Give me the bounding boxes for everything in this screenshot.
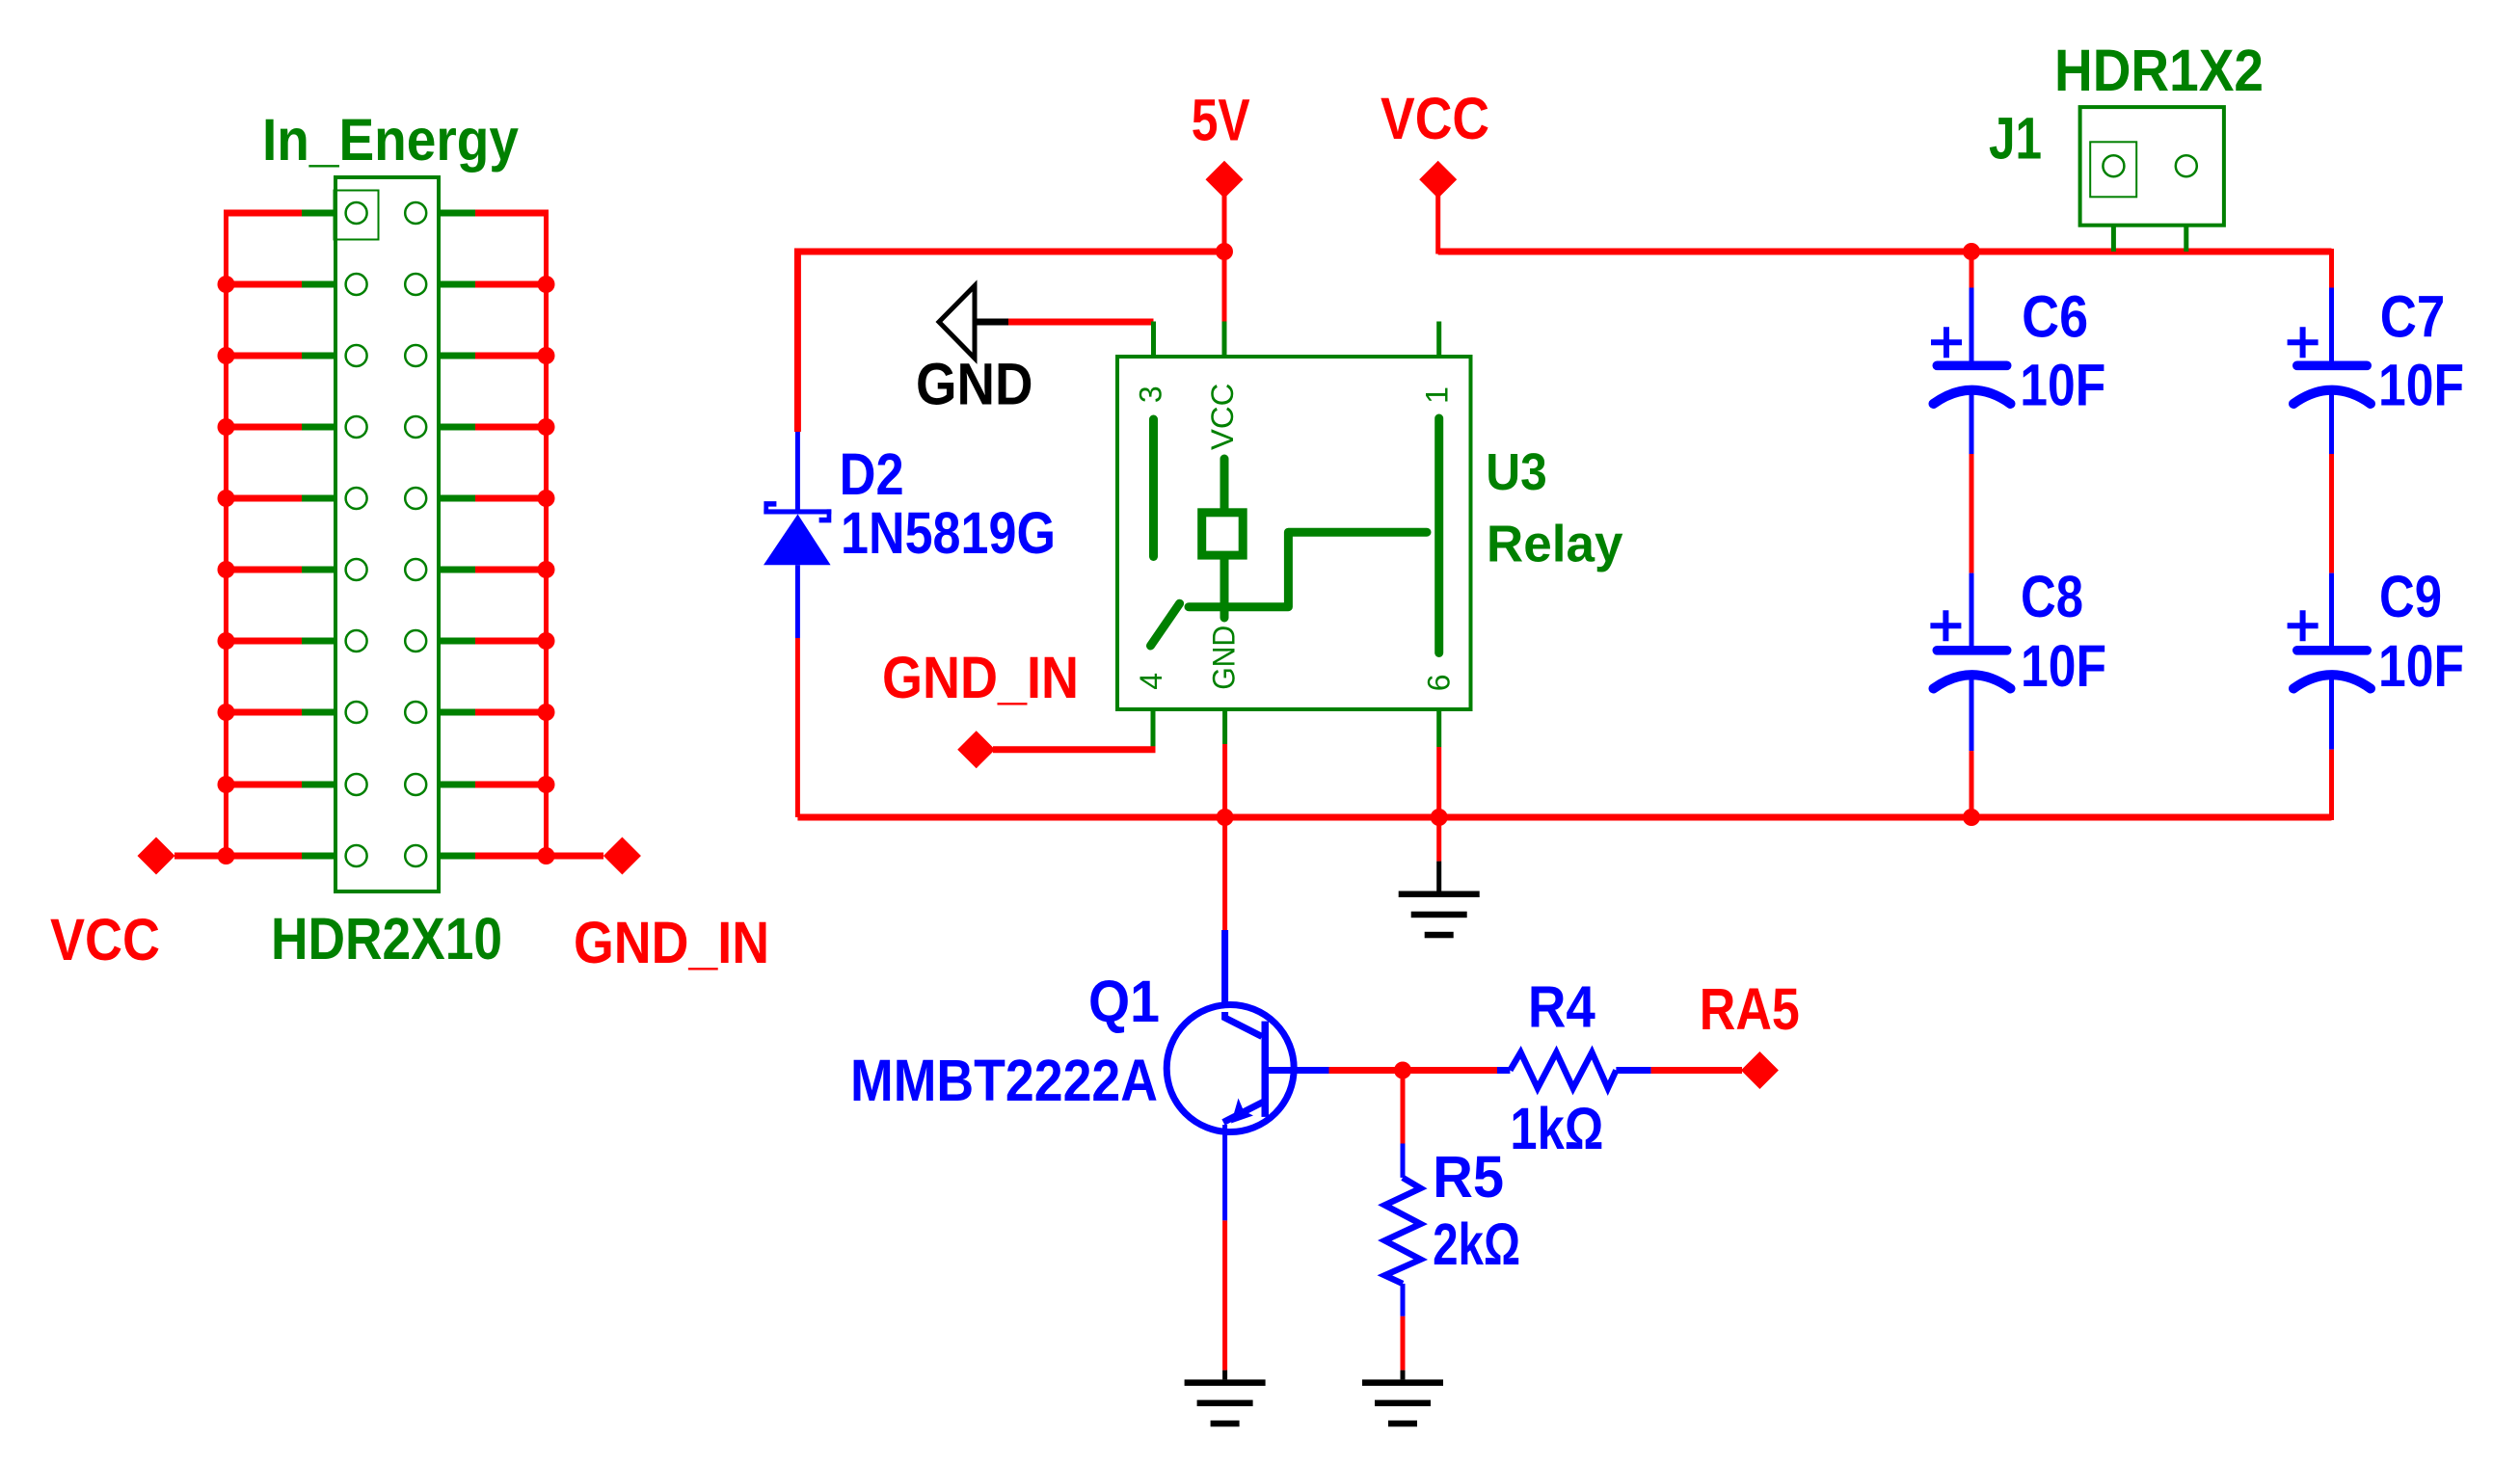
relay U3 coil bottom lead <box>1220 560 1229 618</box>
junction dots left bus <box>218 276 235 864</box>
transistor Q1 emitter slant <box>1223 1103 1263 1123</box>
wire row1 left <box>224 210 302 217</box>
transistor Q1 collector slant inside <box>1225 1012 1262 1037</box>
svg-text:VCC: VCC <box>1381 86 1489 151</box>
wire row8 right <box>475 709 549 716</box>
wire row6 left <box>224 567 302 573</box>
wire 5V stem <box>1222 196 1227 252</box>
connector J In_Energy pin leads left column <box>302 213 346 856</box>
diode D2 schottky cathode bar <box>764 509 831 514</box>
capacitor C8 curved plate <box>1934 675 2011 688</box>
svg-text:10F: 10F <box>2020 353 2105 418</box>
wire relay GND pin to bottom bus <box>1222 744 1227 817</box>
svg-text:R4: R4 <box>1528 973 1595 1039</box>
resistor R5 top lead blue <box>1401 1144 1406 1178</box>
relay U3 body box <box>1117 357 1471 709</box>
wire row2 left <box>224 281 302 288</box>
capacitor C8 plus sign <box>1930 610 1961 641</box>
capacitor C8 top lead blue <box>1970 573 1974 647</box>
capacitor C6 top lead blue <box>1970 288 1974 362</box>
svg-text:10F: 10F <box>2021 633 2106 699</box>
diode D2 schottky right hook <box>819 509 832 522</box>
junction dots right bus <box>538 276 555 864</box>
transistor Q1 collector lead blue <box>1225 930 1262 1037</box>
wire R4 to RA5 <box>1651 1067 1742 1074</box>
wire row10 left to VCC diamond <box>174 853 302 860</box>
node GND_IN diamond mid <box>957 731 995 768</box>
wire diode to bottom bus <box>795 638 800 817</box>
relay U3 pin 6 bottom lead <box>1436 709 1441 747</box>
wire GND arrow to relay pin3 <box>1008 319 1154 326</box>
svg-text:U3: U3 <box>1486 443 1547 501</box>
svg-text:1N5819G: 1N5819G <box>841 500 1056 566</box>
wire C7 to C9 <box>2329 454 2334 573</box>
svg-text:1: 1 <box>1420 386 1455 404</box>
svg-text:Q1: Q1 <box>1088 969 1160 1034</box>
diode D2 triangle <box>764 515 831 566</box>
svg-text:R5: R5 <box>1433 1144 1504 1210</box>
capacitor C9 top lead blue <box>2329 573 2334 647</box>
capacitor C7 curved plate <box>2293 390 2371 404</box>
junction dot C6 at top bus <box>1963 243 1980 260</box>
wire row5 right <box>475 495 549 502</box>
SECTION: right caps <box>1930 38 2464 826</box>
wire GND arrow black segment <box>975 319 1008 326</box>
connector J1 pin leads <box>2111 173 2116 252</box>
capacitor C6 curved plate <box>1934 390 2011 404</box>
wire row9 left <box>224 782 302 788</box>
relay U3 switch common arm slant <box>1151 603 1180 646</box>
svg-text:D2: D2 <box>840 441 904 507</box>
wire Q1 emitter to ground red <box>1222 1220 1227 1370</box>
wire row10 right to GND_IN diamond <box>475 853 603 860</box>
svg-text:10F: 10F <box>2378 633 2464 699</box>
relay U3 pin 3 internal bar <box>1149 419 1158 557</box>
relay U3 VCC pin top lead <box>1222 322 1227 358</box>
wire base to R4 <box>1329 1067 1498 1074</box>
wire row5 left <box>224 495 302 502</box>
relay U3 coil top lead <box>1220 459 1229 508</box>
transistor Q1 base lead blue <box>1269 1067 1329 1074</box>
wire GND_IN right bus vertical <box>544 213 549 856</box>
wire VCC left bus vertical <box>224 213 228 856</box>
ground symbol under pin 6 <box>1399 862 1480 939</box>
connector J1 pin 1 marker square <box>2090 142 2136 197</box>
SECTION: transistor area <box>850 817 1800 1426</box>
svg-text:2kΩ: 2kΩ <box>1433 1211 1520 1277</box>
svg-text:1kΩ: 1kΩ <box>1510 1096 1603 1161</box>
resistor R4 zigzag <box>1510 1052 1616 1088</box>
junction 5V bus dot <box>1216 243 1233 260</box>
resistor R5 bottom lead blue <box>1401 1284 1406 1317</box>
capacitor C7 top lead blue <box>2329 288 2334 362</box>
wire GND_IN to relay pin 4 <box>993 746 1156 753</box>
svg-text:VCC: VCC <box>50 907 160 972</box>
capacitor C7 top plate <box>2292 361 2372 371</box>
SECTION: left connector <box>50 107 769 975</box>
SECTION: middle relay <box>764 86 2332 938</box>
relay U3 pin 1 top lead <box>1436 322 1441 358</box>
node VCC diamond bottom left <box>138 838 175 875</box>
connector J1 pin circles <box>2103 155 2124 176</box>
svg-text:6: 6 <box>1421 675 1456 692</box>
svg-text:4: 4 <box>1134 673 1168 690</box>
node VCC power diamond <box>1419 161 1457 199</box>
relay U3 pin 4 bottom lead <box>1151 709 1156 748</box>
wire row2 right <box>475 281 549 288</box>
connector pin circles right column <box>405 202 426 866</box>
junction dot C8 at bottom bus <box>1963 809 1980 826</box>
resistor R4 left lead blue <box>1497 1067 1510 1074</box>
capacitor C8 top plate <box>1933 646 2012 655</box>
relay U3 switch contact path <box>1189 532 1427 607</box>
wire row7 left <box>224 638 302 645</box>
svg-text:GND_IN: GND_IN <box>574 910 769 975</box>
connector J In_Energy pin leads right column <box>426 213 475 856</box>
wire base node down to R5 <box>1401 1071 1406 1144</box>
node 5V power diamond <box>1206 161 1244 199</box>
wire row8 left <box>224 709 302 716</box>
capacitor C9 curved plate <box>2293 675 2371 688</box>
diode D2 cathode lead blue <box>795 432 800 511</box>
wire row7 right <box>475 638 549 645</box>
relay U3 coil square <box>1202 513 1244 555</box>
svg-text:HDR1X2: HDR1X2 <box>2054 38 2264 103</box>
connector In_Energy body box <box>335 177 439 891</box>
transistor Q1 base bar <box>1262 1022 1270 1117</box>
connector pin 1 marker square <box>335 191 379 240</box>
wire 5V down to relay coil <box>1222 252 1227 322</box>
svg-text:C6: C6 <box>2022 284 2088 350</box>
wire relay pin 6 down to ground <box>1436 747 1441 862</box>
wire bottom bus <box>797 814 2331 821</box>
node RA5 diamond <box>1741 1051 1779 1089</box>
capacitor C9 plus sign <box>2288 610 2319 641</box>
svg-text:10F: 10F <box>2378 353 2464 418</box>
relay U3 pin 3 top lead <box>1151 322 1156 358</box>
capacitor C6 plus sign <box>1931 327 1962 358</box>
junction dot base node <box>1394 1062 1411 1079</box>
connector J1 body box <box>2080 107 2224 226</box>
ground symbol under Q1 <box>1185 1370 1266 1427</box>
resistor R4 right lead blue <box>1616 1067 1650 1074</box>
GND arrow symbol <box>939 286 975 359</box>
wire row4 left <box>224 424 302 431</box>
resistor R5 zigzag <box>1384 1178 1420 1284</box>
svg-text:In_Energy: In_Energy <box>262 107 519 173</box>
capacitor C8 bottom lead blue <box>1970 678 1974 752</box>
wire top bus down to C6 <box>1970 252 1974 288</box>
svg-text:C9: C9 <box>2379 564 2442 629</box>
svg-text:5V: 5V <box>1192 87 1250 152</box>
wire C9 to bottom bus corner <box>2329 750 2334 820</box>
wire row3 left <box>224 353 302 359</box>
diode D2 anode lead blue <box>795 565 800 638</box>
wire row3 right <box>475 353 549 359</box>
capacitor C6 top plate <box>1933 361 2012 371</box>
transistor Q1 emitter lead blue <box>1222 1125 1227 1220</box>
ground symbol under R5 <box>1362 1370 1443 1427</box>
capacitor C6 bottom lead blue <box>1970 392 1974 454</box>
wire VCC stem <box>1435 196 1440 254</box>
wire row9 right <box>475 782 549 788</box>
node GND_IN diamond bottom <box>603 838 641 875</box>
wire C6 to C8 <box>1970 454 1974 573</box>
wire row4 right <box>475 424 549 431</box>
svg-text:GND: GND <box>1206 625 1241 690</box>
relay U3 GND pin bottom lead <box>1222 709 1227 744</box>
wire row6 right <box>475 567 549 573</box>
capacitor C9 top plate <box>2292 646 2372 655</box>
wire top bus corner down to C7 <box>2329 249 2334 288</box>
wire relay GND down to Q1 collector red <box>1222 817 1227 930</box>
wire row1 right <box>475 210 549 217</box>
capacitor C7 plus sign <box>2288 327 2319 358</box>
wire C8 to bottom bus <box>1970 751 1974 817</box>
junction dot relay GND at bus <box>1217 809 1234 826</box>
capacitor C7 bottom lead blue <box>2329 392 2334 454</box>
wire R5 to ground red <box>1401 1317 1406 1370</box>
transistor Q1 circle <box>1166 1005 1294 1132</box>
transistor Q1 emitter arrow <box>1231 1099 1253 1124</box>
svg-text:MMBT2222A: MMBT2222A <box>850 1048 1158 1113</box>
svg-text:Relay: Relay <box>1487 515 1623 572</box>
wire 5V top bus to diode <box>797 252 1224 432</box>
diode D2 schottky left hook <box>764 501 776 514</box>
junction dot pin6 at bus <box>1431 809 1448 826</box>
wire VCC top bus to caps <box>1438 249 2332 255</box>
svg-text:HDR2X10: HDR2X10 <box>271 906 502 971</box>
capacitor C9 bottom lead blue <box>2329 678 2334 750</box>
svg-text:VCC: VCC <box>1205 384 1240 450</box>
svg-text:GND: GND <box>916 352 1033 417</box>
svg-text:C8: C8 <box>2021 564 2083 629</box>
svg-text:J1: J1 <box>1989 106 2042 172</box>
svg-text:RA5: RA5 <box>1700 976 1800 1042</box>
connector pin circles left column <box>346 202 367 866</box>
svg-text:GND_IN: GND_IN <box>882 645 1079 710</box>
svg-text:C7: C7 <box>2380 284 2446 350</box>
relay U3 pins 1-6 internal bar <box>1434 418 1443 653</box>
svg-text:3: 3 <box>1134 386 1168 403</box>
